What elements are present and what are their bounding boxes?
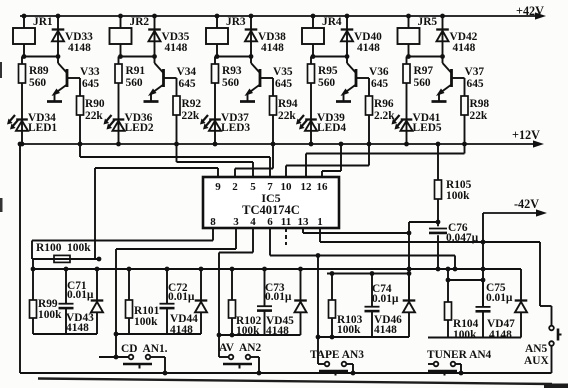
relay JR2 xyxy=(110,16,150,57)
switch AN3 xyxy=(310,349,364,376)
ground emitter bar xyxy=(240,100,255,103)
ground emitter bar xyxy=(336,100,351,103)
wire R90 to IC pin xyxy=(78,142,270,178)
wire relay-diode node xyxy=(311,54,350,59)
relay JR3 xyxy=(206,16,246,57)
capacitor C73 0.01u xyxy=(257,267,292,335)
svg-text:0.01µ: 0.01µ xyxy=(486,292,513,304)
wire clock R100 to pin 9 xyxy=(95,168,218,259)
resistor R95 560 xyxy=(308,57,338,119)
transistor V36 645 xyxy=(341,57,389,101)
+12V power rail xyxy=(18,128,544,148)
svg-text:22k: 22k xyxy=(85,110,103,122)
-42V power rail xyxy=(481,197,547,306)
svg-text:645: 645 xyxy=(467,78,484,90)
svg-text:100k: 100k xyxy=(38,309,62,321)
node rail junction JR3 xyxy=(215,14,254,19)
svg-text:9: 9 xyxy=(215,181,221,193)
relay JR4 xyxy=(302,16,342,57)
pin numbers top row 9 2 5 7 10 12 16 xyxy=(215,181,328,193)
svg-text:R92: R92 xyxy=(182,98,202,110)
svg-text:R100: R100 xyxy=(36,242,62,254)
led VD34 LED1 xyxy=(7,112,57,146)
svg-text:AN5: AN5 xyxy=(525,343,547,355)
resistor R99 100k xyxy=(30,267,63,334)
svg-text:4148: 4148 xyxy=(357,42,380,54)
ground emitter bar xyxy=(432,100,447,103)
svg-text:JR2: JR2 xyxy=(130,16,150,28)
resistor R92 22k xyxy=(164,78,202,144)
svg-text:-42V: -42V xyxy=(514,197,539,211)
wire R94 to IC pin xyxy=(235,142,275,178)
svg-text:JR4: JR4 xyxy=(322,16,342,28)
resistor R101 100k xyxy=(126,267,160,334)
switch AN2 xyxy=(219,342,262,375)
svg-text:JR1: JR1 xyxy=(33,16,53,28)
led VD37 LED3 xyxy=(200,112,250,146)
capacitor C75 0.01u xyxy=(476,280,513,338)
svg-text:TC40174C: TC40174C xyxy=(242,203,300,217)
switch AN4 xyxy=(427,349,492,376)
wire bottom section top bus xyxy=(33,268,521,270)
svg-text:V33: V33 xyxy=(80,66,100,78)
svg-text:100k: 100k xyxy=(67,242,91,254)
svg-text:4148: 4148 xyxy=(453,42,476,54)
diode VD33 4148 xyxy=(52,16,93,57)
svg-text:100k: 100k xyxy=(446,190,470,202)
svg-text:4148: 4148 xyxy=(261,42,284,54)
led VD41 LED5 xyxy=(392,112,442,146)
wire left border xyxy=(18,142,23,373)
wire relay-diode node xyxy=(22,54,61,59)
wire block5 bottom xyxy=(428,337,521,339)
diode VD47 4148 xyxy=(487,269,527,341)
svg-text:645: 645 xyxy=(371,78,388,90)
diode VD43 4148 xyxy=(66,267,103,334)
svg-text:645: 645 xyxy=(275,78,292,90)
svg-text:R91: R91 xyxy=(126,65,146,77)
resistor R90 22k xyxy=(67,78,105,144)
resistor R94 22k xyxy=(260,78,298,144)
svg-text:0.01µ: 0.01µ xyxy=(168,291,195,303)
svg-text:22k: 22k xyxy=(182,110,200,122)
svg-text:645: 645 xyxy=(82,78,99,90)
svg-text:LED5: LED5 xyxy=(413,122,442,134)
wire relay-diode node xyxy=(406,54,445,59)
wire block5 sub-line xyxy=(446,267,483,283)
wire block3 bottom xyxy=(217,333,301,338)
led VD39 LED4 xyxy=(296,112,346,146)
svg-text:AV AN2: AV AN2 xyxy=(219,342,262,354)
svg-text:100k: 100k xyxy=(134,316,158,328)
svg-text:R97: R97 xyxy=(414,65,434,77)
svg-text:560: 560 xyxy=(29,77,46,89)
svg-text:+42V: +42V xyxy=(516,4,544,18)
svg-text:0.01µ: 0.01µ xyxy=(265,291,292,303)
diode VD46 4148 xyxy=(374,267,415,337)
svg-text:R94: R94 xyxy=(278,98,298,110)
svg-text:560: 560 xyxy=(222,77,239,89)
led VD36 LED2 xyxy=(104,112,154,146)
transistor V35 645 xyxy=(245,57,293,101)
svg-text:V34: V34 xyxy=(177,66,197,78)
svg-text:560: 560 xyxy=(414,77,431,89)
svg-text:AUX: AUX xyxy=(524,355,549,367)
svg-text:R89: R89 xyxy=(29,65,49,77)
resistor R105 100k xyxy=(435,142,472,222)
svg-text:4148: 4148 xyxy=(165,42,188,54)
wire pin1 to -42V line and AN5 xyxy=(320,228,540,306)
svg-text:5: 5 xyxy=(250,181,256,193)
diode VD42 4148 xyxy=(436,16,477,57)
wire bottom common bus xyxy=(20,372,552,374)
resistor R91 560 xyxy=(115,57,145,119)
wire relay-diode node xyxy=(215,54,254,59)
pin 11 stub xyxy=(285,228,287,245)
svg-text:560: 560 xyxy=(126,77,143,89)
wire pin13 node to C76 and VD46 xyxy=(407,222,438,301)
svg-text:0.01µ: 0.01µ xyxy=(67,289,94,301)
wire block1 bottom xyxy=(33,333,97,335)
svg-text:6: 6 xyxy=(267,216,273,228)
svg-text:V35: V35 xyxy=(273,66,293,78)
resistor R104 100k xyxy=(445,280,479,341)
resistor R103 100k xyxy=(329,271,363,337)
diode VD40 4148 xyxy=(341,16,382,57)
svg-text:R98: R98 xyxy=(470,98,490,110)
switch AN5 AUX xyxy=(524,306,562,373)
relay JR1 xyxy=(13,16,53,57)
svg-text:22k: 22k xyxy=(470,110,488,122)
svg-text:10: 10 xyxy=(281,181,293,193)
node rail junction JR2 xyxy=(118,14,157,19)
svg-text:4: 4 xyxy=(250,216,256,228)
transistor V37 645 xyxy=(436,57,484,101)
op-amp U1 : IC5 TC40174C xyxy=(203,177,339,228)
switch AN1 xyxy=(99,343,168,375)
resistor R102 100k xyxy=(229,267,262,337)
ground emitter bar xyxy=(144,100,159,103)
capacitor C72 0.01u xyxy=(160,267,195,334)
+42V power rail xyxy=(20,4,546,20)
node rail junction JR5 xyxy=(406,14,445,19)
svg-text:4148: 4148 xyxy=(489,329,512,341)
wire pin4 to AN2 xyxy=(219,228,253,357)
wire R92 to IC pin xyxy=(174,142,253,178)
svg-text:100k: 100k xyxy=(337,324,361,336)
capacitor C74 0.01u xyxy=(365,271,399,337)
node rail junction JR4 xyxy=(311,14,350,19)
diode VD35 4148 xyxy=(148,16,189,57)
wire pin6 to AN3 xyxy=(270,228,457,364)
svg-text:JR5: JR5 xyxy=(418,16,438,28)
diode VD38 4148 xyxy=(245,16,286,57)
svg-text:1: 1 xyxy=(317,216,323,228)
svg-text:V36: V36 xyxy=(369,66,389,78)
wire block2 bottom xyxy=(114,332,201,337)
wire relay-diode node xyxy=(118,54,157,59)
svg-text:645: 645 xyxy=(179,78,196,90)
svg-text:0.01µ: 0.01µ xyxy=(372,293,399,305)
wire pin16 to +12V xyxy=(322,142,343,178)
capacitor C76 0.047u xyxy=(429,220,479,272)
transistor V34 645 xyxy=(148,57,196,101)
svg-text:LED3: LED3 xyxy=(221,122,250,134)
wire block4 bottom xyxy=(316,335,409,340)
svg-text:LED4: LED4 xyxy=(317,122,346,134)
svg-text:V37: V37 xyxy=(465,66,485,78)
svg-text:TUNER AN4: TUNER AN4 xyxy=(427,349,492,361)
svg-text:2: 2 xyxy=(232,181,238,193)
svg-text:22k: 22k xyxy=(278,110,296,122)
wire R98 to IC pin xyxy=(306,142,467,178)
wire block4 sub-line xyxy=(327,271,411,276)
svg-text:TAPE AN3: TAPE AN3 xyxy=(310,349,364,361)
resistor R97 560 xyxy=(403,57,433,119)
resistor R96 2.2k xyxy=(356,78,395,144)
wire R96 to IC pin xyxy=(286,142,371,178)
svg-text:560: 560 xyxy=(318,77,335,89)
resistor R93 560 xyxy=(212,57,242,119)
svg-text:R96: R96 xyxy=(374,98,394,110)
svg-text:+12V: +12V xyxy=(512,128,540,142)
svg-text:R95: R95 xyxy=(318,65,338,77)
svg-text:4148: 4148 xyxy=(374,324,397,336)
pin numbers bottom row 8 3 4 6 11 13 1 xyxy=(210,216,323,228)
diode VD45 4148 xyxy=(266,267,307,337)
diode VD44 4148 xyxy=(170,267,207,336)
svg-text:11: 11 xyxy=(281,216,291,228)
svg-text:CD AN1.: CD AN1. xyxy=(121,343,168,355)
wire pin8 to R100 xyxy=(32,228,213,241)
svg-text:13: 13 xyxy=(298,216,310,228)
resistor R100 100k xyxy=(32,241,101,270)
capacitor C71 0.01u xyxy=(59,267,94,334)
svg-text:4148: 4148 xyxy=(66,322,89,334)
svg-text:8: 8 xyxy=(210,216,216,228)
transistor V33 645 xyxy=(52,57,100,101)
svg-text:R93: R93 xyxy=(222,65,242,77)
svg-text:LED1: LED1 xyxy=(28,122,57,134)
svg-text:R90: R90 xyxy=(85,98,105,110)
resistor R98 22k xyxy=(452,78,490,144)
svg-text:16: 16 xyxy=(317,181,329,193)
svg-text:2.2k: 2.2k xyxy=(374,110,395,122)
ground emitter bar xyxy=(47,100,62,103)
relay JR5 xyxy=(398,16,438,57)
svg-text:JR3: JR3 xyxy=(226,16,246,28)
svg-text:3: 3 xyxy=(233,216,239,228)
svg-text:4148: 4148 xyxy=(68,42,91,54)
svg-text:7: 7 xyxy=(267,181,273,193)
svg-text:12: 12 xyxy=(301,181,313,193)
svg-text:LED2: LED2 xyxy=(125,122,154,134)
resistor R89 560 xyxy=(19,57,49,119)
node rail junction JR1 xyxy=(22,14,61,19)
wire pin3 to key node 1 xyxy=(114,228,236,359)
svg-text:100k: 100k xyxy=(453,329,477,341)
wire pin13 to C76 node xyxy=(303,228,409,233)
